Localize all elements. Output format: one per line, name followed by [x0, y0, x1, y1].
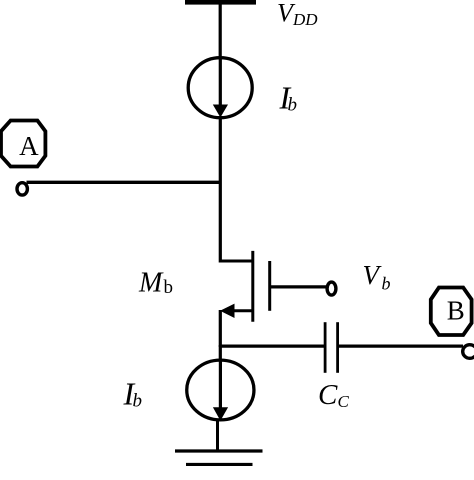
- ground: [175, 451, 263, 464]
- svg-text:b: b: [133, 391, 143, 412]
- port B octagon: [431, 288, 472, 336]
- label Ib1: [279, 80, 298, 116]
- svg-text:B: B: [447, 295, 465, 325]
- current source Ib1: [188, 58, 252, 118]
- label Vb: [363, 260, 391, 294]
- wire: source to node B junction: [219, 310, 222, 347]
- wire: gate to terminal Vb: [270, 285, 326, 288]
- svg-text:b: b: [164, 277, 174, 298]
- capacitor Cc: [325, 322, 338, 373]
- wire: node junction to capacitor Cc: [220, 345, 324, 348]
- svg-text:b: b: [288, 95, 298, 116]
- label Cc: [318, 379, 350, 411]
- label Mb: [138, 268, 173, 299]
- wire: Ib2 to ground: [216, 420, 219, 451]
- wire: Ib1 to transistor drain: [219, 117, 222, 263]
- power rail VDD: [185, 0, 256, 5]
- svg-text:C: C: [318, 379, 338, 411]
- svg-text:DD: DD: [292, 10, 318, 29]
- wire: VDD rail to current source Ib1: [219, 0, 222, 58]
- wire: capacitor Cc to terminal B: [339, 345, 463, 348]
- port A octagon: [1, 121, 45, 167]
- terminal A circle: [17, 183, 27, 195]
- svg-text:M: M: [138, 268, 164, 299]
- label VDD: [277, 0, 318, 29]
- terminal B circle: [463, 345, 474, 359]
- terminal Vb circle: [327, 282, 336, 295]
- svg-text:V: V: [363, 260, 383, 290]
- svg-text:A: A: [19, 131, 39, 161]
- label Ib2: [123, 376, 143, 412]
- wire: node junction to current source Ib2: [219, 345, 222, 361]
- svg-text:b: b: [382, 274, 391, 294]
- transistor Mb: [220, 251, 270, 322]
- svg-text:C: C: [338, 392, 350, 411]
- current source Ib2: [187, 360, 254, 421]
- wire: terminal A to node A junction: [27, 181, 221, 184]
